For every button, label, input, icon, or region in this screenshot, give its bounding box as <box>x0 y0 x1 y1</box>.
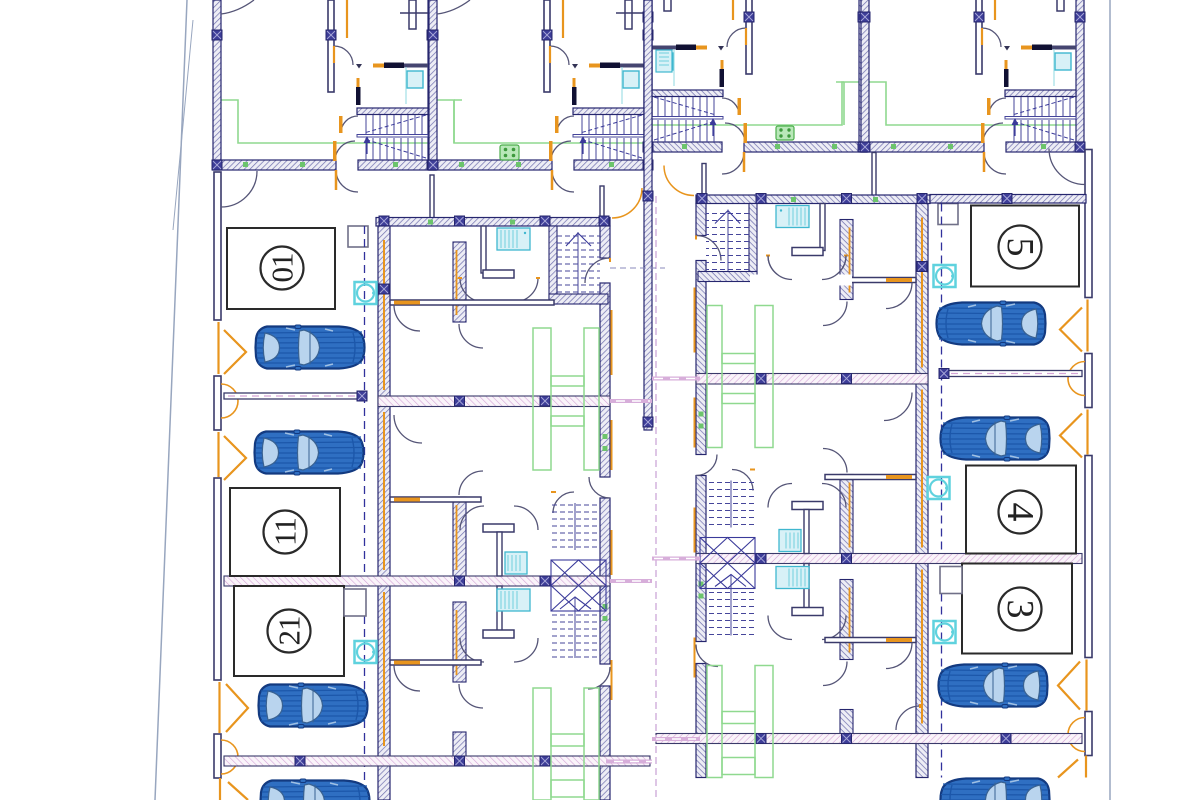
car 4 left column partial <box>261 779 370 800</box>
bath R1 double doors redraw <box>822 256 846 280</box>
lot line band M1/M2 left <box>610 399 652 403</box>
svg-text:01: 01 <box>265 254 300 283</box>
left middle half <box>214 171 650 800</box>
svg-text:5: 5 <box>999 238 1041 257</box>
lot line dashed vertical center <box>655 196 657 800</box>
cyan marker 2 <box>355 641 377 663</box>
car 5 right column <box>937 301 1046 346</box>
car 7 right column <box>939 663 1048 708</box>
central spine wall <box>644 0 652 430</box>
lot line band R1/R2 right <box>652 377 700 381</box>
stall number 5 <box>999 226 1042 269</box>
stall number 4 <box>999 491 1042 534</box>
lot line band M3/M4 left <box>606 760 652 764</box>
right middle half (mirrored) <box>656 149 1092 778</box>
cyan marker 3 <box>934 265 956 287</box>
svg-text:21: 21 <box>272 617 307 646</box>
car 8 right column partial <box>941 777 1050 800</box>
svg-text:4: 4 <box>999 503 1041 522</box>
car 6 right column <box>941 416 1050 461</box>
dashed guide top center <box>610 267 665 269</box>
cyan marker 4 <box>928 477 950 499</box>
cyan marker 5 <box>934 621 956 643</box>
svg-text:3: 3 <box>999 600 1041 619</box>
lot line band R3/R4 right <box>652 737 700 741</box>
car 1 left column <box>256 325 365 370</box>
lot line band M2/M3 left <box>610 579 652 583</box>
svg-text:11: 11 <box>268 518 303 546</box>
unit T3 (mirrored) <box>643 0 868 174</box>
stall number 11 <box>264 511 307 554</box>
door arc R3 east entry <box>896 706 920 730</box>
unit T4 <box>860 0 1085 174</box>
car 3 left column <box>259 683 368 728</box>
site boundary right <box>1109 0 1111 800</box>
stove T2 <box>500 145 519 160</box>
door arc R3 east entry leaf <box>919 704 921 708</box>
stove T3 <box>776 126 794 140</box>
unit T1 <box>212 0 437 192</box>
radiator T3 extension <box>656 50 672 72</box>
stall number 10 <box>261 247 304 290</box>
wire risers between top units <box>454 100 462 143</box>
stall number 12 <box>268 610 311 653</box>
stall number 3 <box>999 588 1042 631</box>
unit T2 <box>428 0 653 192</box>
cyan marker 1 <box>355 282 377 304</box>
lot line band R2/R3 right <box>652 557 700 561</box>
patch living room R1 <box>750 275 852 286</box>
wall garage row top right over parking <box>930 195 1086 204</box>
site boundary left <box>155 0 187 800</box>
car 2 left column <box>255 430 364 475</box>
